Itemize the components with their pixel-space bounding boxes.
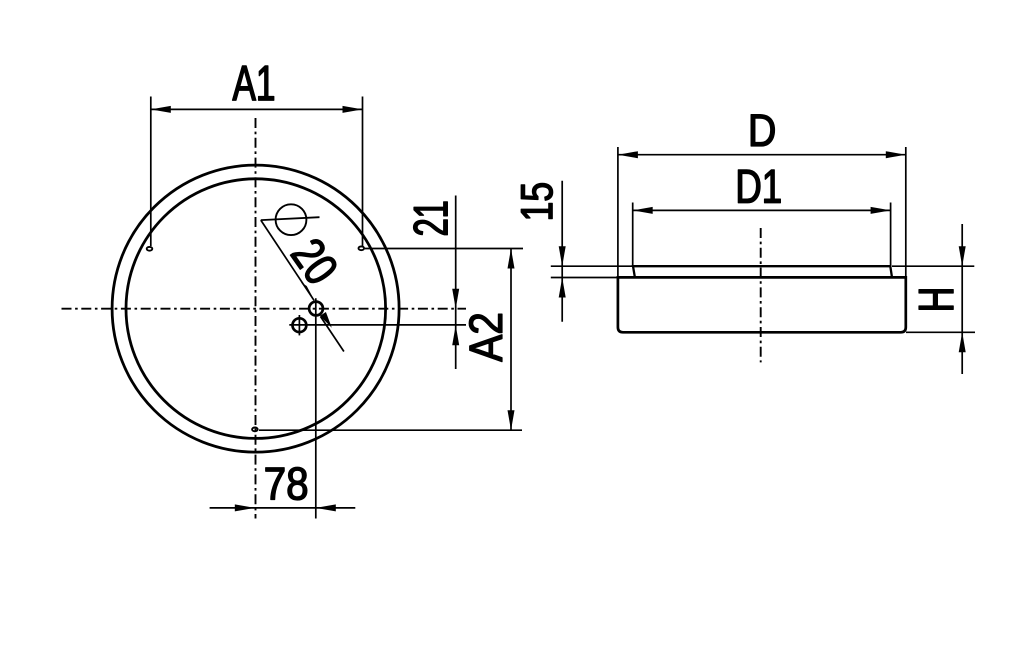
hole right xyxy=(359,246,365,250)
dimension A2 arrow bottom xyxy=(508,410,515,430)
dimension 15 extension line bottom xyxy=(551,277,618,279)
dimension D extension line left xyxy=(617,147,619,277)
label A1 xyxy=(233,66,274,100)
dimension 78 arrow left (points right) xyxy=(235,504,255,511)
leader arrow upper (points at hole) xyxy=(301,282,315,301)
leader line upper segment xyxy=(261,220,314,300)
lower center hole vertical tick xyxy=(298,315,300,335)
label D xyxy=(751,115,774,146)
vertical centerline xyxy=(255,118,257,519)
label H (rotated) xyxy=(919,290,953,310)
leader line lower segment xyxy=(321,317,344,352)
inner circle (top view) xyxy=(126,179,386,439)
dimension 15 extension line top xyxy=(551,265,633,267)
side view glass band top xyxy=(633,266,892,277)
dimension D1 extension line left xyxy=(632,203,634,268)
label 20 (rotated) xyxy=(290,240,335,283)
dimension H line xyxy=(961,224,963,374)
upper center hole vertical tick / 78 extension line xyxy=(315,298,317,518)
dimension A1 line xyxy=(151,108,363,110)
outer circle (top view rim) xyxy=(112,165,399,452)
dimension 15 arrow upper (points down) xyxy=(559,246,566,266)
label 21 (rotated) xyxy=(414,202,448,235)
dimension D1 arrow left xyxy=(633,207,653,214)
lower center hole horizontal extension line xyxy=(289,324,466,326)
diameter symbol slash xyxy=(261,217,320,220)
dimension D1 line xyxy=(633,209,891,211)
dimension A1 arrow right xyxy=(343,106,363,113)
dimension H extension line top xyxy=(892,265,974,267)
dimension 15 arrow lower (points up) xyxy=(559,278,566,298)
side view body xyxy=(618,277,906,332)
label 15 (rotated) xyxy=(521,183,552,218)
leader arrow lower (points at hole) xyxy=(320,312,332,328)
hole bottom xyxy=(252,428,258,432)
dimension D1 arrow right xyxy=(871,207,891,214)
dimension D line xyxy=(618,154,906,156)
dimension A1 arrow left xyxy=(151,106,171,113)
dimension D arrow left xyxy=(618,151,638,158)
dimension 78 arrow right (points left) xyxy=(316,504,336,511)
lower center hole (crossed circle) xyxy=(293,318,307,332)
dimension 21 line xyxy=(455,196,457,370)
dimension H arrow upper (points down) xyxy=(959,246,966,266)
dimension H extension line bottom xyxy=(906,331,975,333)
label D1 xyxy=(738,170,780,203)
dimension 21 arrow upper (points down to centerline) xyxy=(452,289,459,309)
label A2 (rotated) xyxy=(469,314,502,362)
dimension 78 line xyxy=(210,507,356,509)
upper center hole (crossed circle) xyxy=(309,302,323,316)
hole left xyxy=(147,247,153,251)
dimension H arrow lower (points up) xyxy=(959,332,966,352)
dimension A2 extension line top xyxy=(365,248,523,250)
dimension D1 extension line right xyxy=(890,203,892,268)
dimension D arrow right xyxy=(886,151,906,158)
dimension D extension line right xyxy=(905,147,907,277)
dimension A2 arrow top xyxy=(508,249,515,269)
side view vertical centerline xyxy=(760,228,762,362)
label 78 xyxy=(266,467,307,500)
dimension 21 arrow lower (points up) xyxy=(452,325,459,345)
dimension A2 extension line bottom xyxy=(259,429,522,431)
dimension 15 line xyxy=(561,181,563,322)
horizontal centerline xyxy=(62,308,467,310)
dimension A1 extension line left xyxy=(150,97,152,247)
dimension A1 extension line right xyxy=(362,97,364,247)
diameter symbol circle xyxy=(276,204,307,235)
dimension A2 line xyxy=(510,249,512,431)
